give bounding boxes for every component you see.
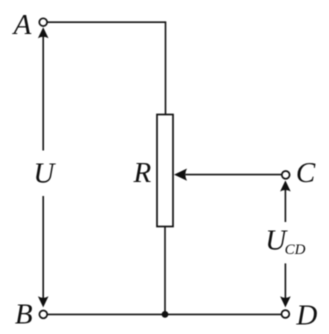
voltage U arrow down head at B [38, 296, 49, 307]
wire UCD line lower segment [284, 263, 286, 298]
svg-text:U: U [33, 158, 56, 190]
node A [39, 18, 47, 26]
svg-text:R: R [133, 157, 152, 189]
wire top horizontal A to corner [48, 21, 166, 23]
wire wiper to node C [186, 174, 282, 176]
voltage UCD arrow up head at C [280, 180, 291, 191]
wire vertical corner down to resistor top [165, 21, 167, 114]
wire resistor bottom lead [164, 227, 166, 315]
junction dot [162, 311, 169, 318]
wire U line upper segment [42, 37, 44, 151]
wire bottom B to D [48, 313, 282, 315]
svg-text:CD: CD [285, 242, 306, 258]
wire UCD line upper segment [284, 190, 286, 222]
resistor R (potentiometer body) [157, 115, 173, 227]
svg-text:A: A [12, 9, 32, 41]
node B [39, 311, 47, 319]
node D [282, 310, 290, 318]
svg-text:C: C [296, 157, 316, 189]
voltage UCD arrow down head at D [280, 296, 291, 307]
wiper arrow into resistor [174, 169, 187, 181]
svg-text:D: D [295, 299, 317, 331]
node C [282, 171, 290, 179]
voltage U arrow up head at A [38, 27, 49, 38]
wire U line lower segment [42, 196, 44, 298]
svg-text:B: B [15, 298, 33, 330]
